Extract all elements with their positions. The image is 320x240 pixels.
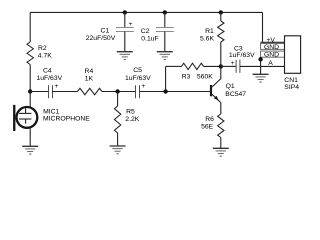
- wire C4 to R4: [53, 91, 78, 93]
- wire C3 to connector pin A: [240, 65, 285, 67]
- microphone MIC1: [13, 92, 90, 132]
- svg-text:5.6K: 5.6K: [200, 35, 214, 42]
- svg-text:R5: R5: [126, 109, 135, 116]
- wire R1 bottom lead: [220, 42, 222, 66]
- svg-text:R6: R6: [205, 116, 214, 123]
- svg-text:SIP4: SIP4: [284, 84, 299, 91]
- wire R3 right run: [204, 65, 221, 67]
- wire left rail upper (rail to R2 top): [29, 12, 31, 42]
- node gnd junction: [258, 57, 262, 61]
- svg-text:BC547: BC547: [225, 91, 246, 98]
- wire C2 top lead: [164, 12, 166, 27]
- node rail C1: [123, 10, 127, 14]
- capacitor C5: [135, 85, 137, 98]
- svg-text:R4: R4: [85, 68, 94, 75]
- ground C1: [117, 52, 133, 60]
- wire mic node to C4: [30, 91, 48, 93]
- capacitor C4: [48, 85, 50, 98]
- svg-text:C4: C4: [43, 68, 52, 75]
- svg-text:560K: 560K: [197, 74, 213, 81]
- wire emitter to R6: [220, 103, 222, 114]
- ground R5: [110, 146, 126, 154]
- wire gnd vertical: [260, 57, 262, 74]
- wire collector node to C3: [221, 65, 236, 67]
- node mic/C4 junction: [28, 89, 32, 93]
- wire R5 top lead: [117, 92, 119, 107]
- net label GND pin3: [261, 51, 285, 59]
- capacitor C2: [156, 27, 174, 29]
- svg-text:Q1: Q1: [226, 83, 235, 90]
- wire top supply rail: [30, 11, 262, 13]
- svg-text:56E: 56E: [201, 124, 214, 131]
- svg-text:1uF/63V: 1uF/63V: [125, 75, 151, 82]
- wire C2 bottom lead: [164, 32, 166, 52]
- svg-text:+: +: [141, 83, 145, 90]
- svg-text:+: +: [129, 21, 133, 28]
- svg-text:MIC1: MIC1: [43, 108, 59, 115]
- node rail C2: [163, 10, 167, 14]
- svg-text:A: A: [268, 60, 273, 67]
- svg-text:1K: 1K: [85, 76, 94, 83]
- svg-text:MICROPHONE: MICROPHONE: [43, 115, 90, 122]
- wire C5 to base: [140, 91, 211, 93]
- ground MIC1: [22, 146, 38, 154]
- resistor R3: [182, 63, 204, 69]
- resistor R2: [27, 42, 33, 65]
- wire R4 to C5: [102, 91, 136, 93]
- node base junction: [163, 89, 167, 93]
- svg-text:+: +: [55, 83, 59, 90]
- wire left rail lower (R2 bottom to mic node): [29, 65, 31, 92]
- wire R3 left run: [166, 65, 182, 67]
- svg-text:0.1uF: 0.1uF: [141, 35, 158, 42]
- capacitor C3: [235, 60, 237, 73]
- capacitor C1: [116, 27, 134, 29]
- wire R5 bottom lead: [117, 133, 119, 146]
- connector CN1: [284, 36, 300, 91]
- svg-text:+V: +V: [266, 37, 275, 44]
- node R5 junction: [115, 89, 119, 93]
- svg-text:+: +: [231, 60, 235, 67]
- svg-text:R3: R3: [182, 74, 191, 81]
- resistor R4: [78, 88, 103, 94]
- svg-text:22uF/50V: 22uF/50V: [86, 35, 116, 42]
- svg-text:C5: C5: [133, 67, 142, 74]
- net label GND pin2: [261, 44, 285, 51]
- ground C2: [157, 52, 173, 60]
- svg-text:R1: R1: [205, 28, 214, 35]
- wire pin +V: [261, 41, 285, 43]
- svg-text:1uF/63V: 1uF/63V: [229, 52, 255, 59]
- wire C1 top lead: [124, 12, 126, 27]
- wire rail drop to +V: [262, 12, 264, 42]
- svg-text:4.7K: 4.7K: [38, 52, 52, 59]
- node rail R1: [219, 10, 223, 14]
- wire R1 top lead: [220, 12, 222, 21]
- resistor R1: [218, 21, 224, 42]
- resistor R6: [218, 114, 224, 138]
- wire base node riser: [165, 66, 167, 91]
- svg-text:2.2K: 2.2K: [125, 116, 139, 123]
- svg-text:GND: GND: [264, 52, 279, 59]
- transistor Q1: [211, 66, 246, 102]
- svg-text:1uF/63V: 1uF/63V: [36, 75, 62, 82]
- ground CN1: [253, 74, 269, 82]
- node collector junction: [219, 64, 223, 68]
- wire R6 bottom lead: [220, 138, 222, 149]
- svg-text:GND: GND: [264, 44, 279, 51]
- wire mic bottom lead: [29, 128, 31, 146]
- svg-text:C1: C1: [101, 28, 110, 35]
- resistor R5: [114, 106, 120, 133]
- svg-text:R2: R2: [38, 45, 47, 52]
- wire C1 bottom lead: [124, 32, 126, 52]
- svg-text:C2: C2: [141, 28, 150, 35]
- ground R6: [213, 148, 229, 156]
